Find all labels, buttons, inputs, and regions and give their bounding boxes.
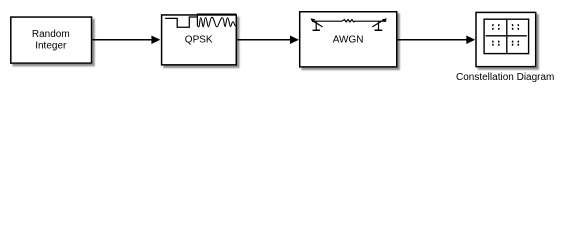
AWGN icon left foot [313, 29, 320, 31]
arrowhead into AWGN [290, 36, 299, 45]
QPSK icon modulated sine wave [197, 17, 235, 27]
block AWGN [300, 12, 397, 67]
svg-text:Constellation Diagram: Constellation Diagram [456, 72, 554, 83]
QPSK icon multilevel square wave [165, 17, 197, 27]
block Random Integer [11, 17, 92, 63]
block Constellation Diagram [476, 12, 536, 66]
svg-text:QPSK: QPSK [185, 34, 213, 45]
AWGN icon left post [315, 21, 317, 29]
constellation dots quadrant TR [511, 24, 519, 31]
AWGN icon channel line with noise zigzag [314, 20, 386, 22]
constellation icon horizontal axis [486, 35, 527, 37]
constellation icon inner square [484, 19, 528, 53]
svg-text:Integer: Integer [35, 41, 67, 52]
wire QPSK to AWGN [236, 39, 290, 41]
AWGN icon left diagonal arrow [313, 21, 322, 27]
svg-text:Random: Random [32, 29, 70, 40]
svg-text:AWGN: AWGN [333, 34, 364, 45]
wire Random Integer to QPSK [92, 39, 152, 41]
AWGN icon right diagonal arrow [372, 20, 384, 27]
block QPSK [162, 15, 237, 65]
constellation dots quadrant TL [492, 24, 500, 31]
QPSK icon carrier left stub [196, 14, 198, 26]
wire AWGN to Constellation Diagram [397, 39, 467, 41]
arrowhead into Constellation Diagram [466, 36, 475, 45]
constellation dots quadrant BL [492, 40, 500, 46]
arrowhead into QPSK [151, 36, 160, 45]
QPSK icon carrier top bar [197, 13, 236, 15]
constellation icon vertical axis [506, 20, 508, 53]
AWGN icon right post [378, 21, 380, 29]
constellation dots quadrant BR [511, 40, 519, 46]
AWGN icon right foot [375, 29, 383, 31]
